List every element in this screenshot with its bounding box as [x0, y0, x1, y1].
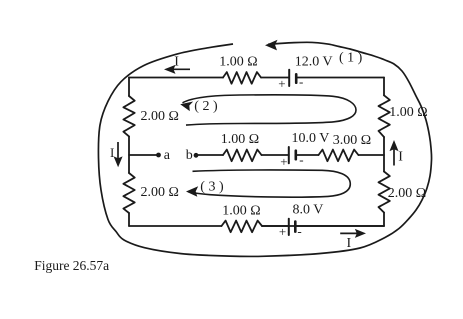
resistor R-bottom 1.00 ohm [222, 221, 263, 233]
wire [297, 154, 319, 156]
svg-text:( 3 ): ( 3 ) [200, 179, 224, 194]
wire [295, 225, 384, 227]
svg-text:( 1 ): ( 1 ) [339, 51, 363, 66]
svg-text:( 2 ): ( 2 ) [194, 99, 218, 114]
battery B1 12.0 V [289, 70, 296, 86]
svg-text:1.00 Ω: 1.00 Ω [389, 105, 427, 120]
current arrow I bottom (right) [340, 229, 366, 251]
wire [358, 154, 384, 156]
loop 1 outer curve [98, 42, 431, 256]
wire [129, 225, 222, 227]
wire [128, 78, 130, 97]
svg-text:I: I [398, 149, 403, 164]
svg-text:2.00 Ω: 2.00 Ω [141, 109, 179, 124]
svg-text:-: - [297, 224, 301, 239]
svg-text:+: + [280, 154, 287, 169]
wire [261, 77, 289, 79]
wire middle branch from node b [196, 154, 223, 156]
loop 2 ellipse [183, 95, 357, 125]
wire [262, 154, 289, 156]
loop 2 arrowhead [180, 102, 193, 112]
loop 3 ellipse [189, 170, 351, 197]
battery B3 8.0 V [289, 219, 296, 235]
svg-text:Figure 26.57a: Figure 26.57a [34, 258, 109, 273]
svg-text:1.00 Ω: 1.00 Ω [222, 203, 260, 218]
svg-text:I: I [110, 145, 114, 160]
svg-text:a: a [164, 148, 171, 163]
loop 3 arrowhead [186, 186, 198, 197]
wire right branch upper [383, 78, 385, 96]
current arrow I top-left [164, 55, 190, 74]
svg-text:-: - [299, 74, 303, 89]
svg-text:1.00 Ω: 1.00 Ω [219, 55, 257, 70]
svg-text:3.00 Ω: 3.00 Ω [333, 133, 371, 148]
svg-text:8.0 V: 8.0 V [293, 203, 324, 218]
wire bottom branch [262, 225, 384, 227]
wire middle stub to node a [129, 154, 159, 156]
resistor R-left-upper 2.00 ohm [123, 96, 134, 136]
wire [128, 136, 130, 173]
wire [383, 137, 385, 172]
wire left branch lower [128, 213, 130, 226]
current arrow I left (down) [110, 142, 123, 167]
resistor R-mid 3.00 ohm [319, 150, 359, 162]
svg-text:+: + [279, 224, 286, 239]
resistor R-right-upper 1.00 ohm [379, 95, 390, 137]
resistor R-top 1.00 ohm (top branch) [223, 72, 261, 84]
loop 1 arrowhead [265, 40, 278, 51]
svg-text:2.00 Ω: 2.00 Ω [141, 185, 179, 200]
node b [194, 153, 199, 158]
svg-text:I: I [347, 236, 352, 251]
svg-text:12.0 V: 12.0 V [295, 55, 333, 70]
wire [262, 225, 289, 227]
svg-text:+: + [278, 76, 285, 91]
current arrow I right (up) [390, 140, 404, 166]
resistor R-left-lower 2.00 ohm [123, 173, 134, 213]
svg-text:I: I [174, 55, 179, 70]
node a [156, 153, 161, 158]
wire [383, 213, 385, 227]
svg-text:2.00 Ω: 2.00 Ω [388, 186, 426, 201]
svg-text:10.0 V: 10.0 V [292, 131, 330, 146]
resistor R-right-lower 2.00 ohm [379, 172, 390, 213]
battery B2 10.0 V [289, 147, 296, 163]
wire top branch [129, 77, 223, 79]
svg-text:b: b [186, 148, 193, 163]
resistor R-mid 1.00 ohm [223, 150, 262, 162]
svg-text:1.00 Ω: 1.00 Ω [221, 132, 259, 147]
wire [296, 77, 384, 79]
svg-text:-: - [299, 152, 303, 167]
